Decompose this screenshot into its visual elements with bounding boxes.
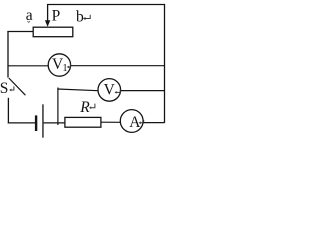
- svg-text:P: P: [52, 7, 61, 24]
- switch S blade: [9, 78, 26, 95]
- wire resistor to ammeter: [101, 121, 121, 123]
- voltmeter V left wire: [57, 89, 98, 91]
- wire battery to resistor: [44, 122, 65, 124]
- voltmeter V: [98, 79, 121, 102]
- ammeter A: [120, 110, 143, 133]
- svg-text:1: 1: [62, 63, 67, 74]
- svg-text:R: R: [79, 99, 90, 116]
- return hook after S: [11, 86, 14, 90]
- battery long plate: [42, 104, 43, 137]
- voltmeter V1 right wire: [71, 65, 165, 67]
- wire branch vertical to voltmeter V: [57, 88, 59, 126]
- return hook after R: [91, 104, 95, 108]
- return hook after b: [85, 15, 90, 19]
- svg-text:V: V: [104, 82, 116, 99]
- wire right vertical: [164, 4, 166, 123]
- return hook after A: [140, 120, 144, 123]
- svg-text:S: S: [0, 80, 8, 97]
- anchor mark under a: [27, 21, 30, 23]
- voltmeter V right wire: [121, 90, 165, 92]
- voltmeter V1: [48, 54, 70, 76]
- return hook after V: [116, 89, 120, 92]
- potentiometer slider arrow: [47, 4, 49, 21]
- wire left vertical lower: [7, 98, 9, 124]
- battery short plate: [35, 115, 37, 131]
- wire left vertical upper: [7, 31, 9, 78]
- resistor R body: [65, 117, 101, 127]
- wire from terminal a to left side: [7, 31, 33, 33]
- potentiometer P body: [33, 27, 73, 37]
- wire top (slider P to right side): [47, 4, 165, 6]
- svg-text:b: b: [76, 9, 84, 26]
- wire bottom left (to battery): [8, 122, 35, 124]
- ammeter right wire: [143, 122, 164, 124]
- voltmeter V1 left wire: [7, 65, 48, 67]
- return hook after V1: [68, 64, 70, 67]
